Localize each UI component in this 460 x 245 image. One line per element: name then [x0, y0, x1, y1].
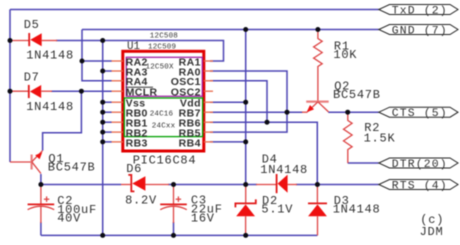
pin stub RB1: [112, 121, 124, 123]
svg-text:GND (7): GND (7): [392, 26, 448, 38]
svg-text:24C16: 24C16: [150, 111, 174, 119]
wire emitter rail left segment: [41, 184, 121, 186]
pin stub Vdd: [204, 101, 213, 103]
svg-text:1N4148: 1N4148: [26, 48, 74, 62]
svg-text:1N4148: 1N4148: [333, 203, 381, 217]
svg-text:BC547B: BC547B: [333, 88, 381, 102]
wire bus2 to RB1: [103, 121, 112, 123]
svg-text:12C509: 12C509: [148, 43, 176, 51]
node D7-Q1 junction: [79, 89, 84, 94]
svg-text:8.2V: 8.2V: [125, 193, 157, 207]
pin stub Vss: [112, 101, 124, 103]
svg-text:24Cxx: 24Cxx: [152, 123, 176, 131]
connector GND (7): [379, 25, 458, 35]
wire bottom rail: [41, 234, 318, 236]
diode D7: [11, 85, 52, 98]
svg-text:RTS (4): RTS (4): [392, 181, 448, 193]
wire Q1 emitter down: [40, 174, 42, 185]
svg-text:CTS (5): CTS (5): [392, 108, 448, 120]
pin stub OSC2: [204, 90, 213, 92]
capacitor C2: [28, 185, 55, 224]
wire bus1 GND vertical to RA4: [82, 30, 112, 81]
node RA0-RB7 junction: [285, 110, 290, 115]
node bus3-RB4 junction: [243, 139, 248, 144]
wire R2 to DTR: [348, 162, 379, 164]
U1 green box 24Cxx section: [124, 98, 202, 137]
node bus3-Vdd junction: [243, 100, 248, 105]
wire GND line: [82, 29, 379, 31]
pin stub RB7: [204, 111, 213, 113]
diode D4: [256, 174, 297, 193]
wire RB4 to bus3: [210, 141, 246, 143]
pin stub RB0: [112, 111, 124, 113]
wire bus2 to RB2: [103, 131, 112, 133]
node bus1-RA2 junction: [80, 59, 85, 64]
node OSC1-RB6 junction: [265, 120, 270, 125]
wire bus2 to RA3: [103, 70, 112, 72]
pin stub RB6: [204, 121, 213, 123]
wire bus2 to Vss: [103, 101, 112, 103]
pin stub MCLR: [112, 90, 124, 92]
wire D7 net to MCLR: [51, 90, 112, 92]
pin stub RA2: [112, 60, 124, 62]
svg-text:40V: 40V: [57, 212, 81, 226]
node GND-bus3 junction: [243, 27, 248, 32]
wire bus2 to RB3: [103, 141, 112, 143]
wire rail right segment D4 to RTS: [296, 184, 379, 186]
node TxD-D5 junction: [8, 38, 13, 43]
node bus2-bottom rail junction: [100, 233, 105, 238]
svg-text:16V: 16V: [191, 212, 215, 226]
svg-text:TxD (2): TxD (2): [392, 6, 448, 18]
zener diode D2: [235, 185, 255, 236]
zener diode D6: [121, 175, 169, 192]
svg-text:1.5K: 1.5K: [364, 131, 396, 145]
wire rail mid segment D6 to D4: [168, 184, 257, 186]
transistor Q1: [10, 151, 43, 174]
node bus2-RB1 junction: [100, 120, 105, 125]
wire RA0 net over to RB5: [210, 71, 287, 132]
node bottom rail-C3 junction: [171, 233, 176, 238]
wire C3 bottom lead: [173, 222, 175, 235]
node GND-R1 junction: [315, 27, 320, 32]
U1 purple box 12C50X section: [126, 57, 202, 96]
svg-text:PIC16C84: PIC16C84: [133, 154, 197, 168]
node TxD-D7 junction: [8, 89, 13, 94]
node bus3-rail junction: [243, 182, 248, 187]
wire OSC1 net down to RB6: [210, 81, 267, 122]
pin stub RA1: [204, 60, 213, 62]
diode D3: [308, 185, 327, 236]
wire bus2 to RB0: [103, 111, 112, 113]
node bottom rail-D2 junction: [243, 233, 248, 238]
pin stub RA3: [112, 70, 124, 72]
svg-text:DTR(20): DTR(20): [392, 159, 448, 171]
node rail-D3-RTS junction: [315, 182, 320, 187]
wire left vertical from TxD to Q1 base: [9, 10, 11, 163]
node bus2-Vss junction: [100, 100, 105, 105]
node D5-bus2 junction: [100, 38, 105, 43]
connector TxD (2): [379, 5, 458, 15]
svg-text:RB4: RB4: [179, 137, 201, 149]
svg-text:5.1V: 5.1V: [261, 203, 293, 217]
svg-text:12C508: 12C508: [150, 32, 178, 40]
wire Vdd to bus3: [210, 101, 246, 103]
MCLR overbar: [126, 86, 153, 88]
wire bus2 vertical: [102, 41, 104, 236]
pin stub RB5: [204, 131, 213, 133]
node bus2-RB3 junction: [100, 139, 105, 144]
svg-text:10K: 10K: [333, 48, 357, 62]
op socket U1 red box PIC16C84: [123, 51, 204, 151]
wire bus1 branch to RA2: [82, 60, 112, 62]
svg-text:BC547B: BC547B: [48, 161, 96, 175]
pin stub RA0: [204, 70, 213, 72]
svg-text:D7: D7: [24, 70, 40, 84]
diode D5: [11, 33, 57, 46]
capacitor C3: [160, 185, 187, 223]
node bus2-RA3 junction: [100, 69, 105, 74]
svg-text:1N4148: 1N4148: [26, 100, 74, 114]
node Q1 emitter-C2 junction: [38, 182, 43, 187]
wire Q1 collector net: [43, 91, 82, 150]
pin stub RB2: [112, 131, 124, 133]
node CTS-R2 junction: [345, 110, 350, 115]
connector RTS (4): [379, 180, 458, 190]
wire TxD top line: [10, 9, 379, 11]
wire Q2 collector to CTS: [328, 111, 379, 113]
connector DTR(20): [379, 158, 458, 168]
wire C2 bottom lead: [40, 222, 42, 235]
svg-text:1N4148: 1N4148: [260, 163, 308, 177]
resistor R2: [344, 112, 353, 163]
node rail-C3 junction: [171, 182, 176, 187]
svg-text:RB3: RB3: [126, 137, 148, 149]
wire D5 net to RA1: [56, 41, 224, 62]
pin stub RB3: [112, 141, 124, 143]
node bus2-RB2 junction: [100, 130, 105, 135]
wire bus3 GND vertical: [245, 30, 247, 185]
transistor Q2: [302, 102, 329, 113]
resistor R1: [314, 30, 323, 101]
node bus2-RB0 junction: [100, 110, 105, 115]
pin stub RB4: [204, 141, 213, 143]
connector CTS (5): [379, 107, 458, 117]
svg-text:D5: D5: [24, 18, 40, 32]
pin stub RA4: [112, 80, 124, 82]
pin stub OSC1: [204, 80, 213, 82]
wire RB6 line down to RTS: [210, 122, 317, 184]
svg-text:JDM: JDM: [420, 225, 444, 239]
svg-text:U1: U1: [127, 41, 140, 53]
wire RB7 line to Q2 emitter: [210, 111, 303, 113]
svg-text:12C50X: 12C50X: [146, 63, 175, 71]
